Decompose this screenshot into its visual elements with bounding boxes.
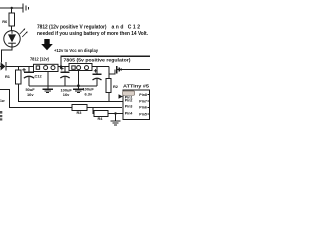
main wire to 7812: [7, 65, 34, 67]
ATtiny chip box: [123, 90, 150, 120]
LED triangle: [8, 34, 16, 42]
capacitor 100uF plates: [61, 71, 70, 73]
resistor R4: [94, 111, 108, 117]
7805 pin3 circle: [85, 66, 89, 70]
wire 7805 out: [92, 65, 109, 67]
diode D1 cathode bar: [5, 62, 7, 70]
wire 7805 gnd down: [77, 71, 79, 89]
regulator 7805 box: [69, 64, 92, 71]
junction dot 7805 gnd: [77, 84, 80, 87]
wire left edge to lower rail: [0, 90, 122, 108]
LED circle: [4, 31, 20, 47]
jog to +5v ground symbol: [109, 70, 115, 75]
wire R4 to chip: [108, 113, 123, 115]
svg-text:ATTiny #5: ATTiny #5: [123, 84, 149, 89]
svg-text:6.3v: 6.3v: [85, 91, 93, 96]
svg-text:Pin7: Pin7: [139, 99, 147, 103]
LED cathode bar: [8, 42, 16, 44]
chip pin stubs right: [148, 94, 150, 96]
svg-text:R3: R3: [77, 110, 83, 115]
plus sign cap3: [94, 69, 98, 73]
resistor R3 (on rail): [72, 105, 87, 111]
LED light arrows: [20, 29, 27, 37]
svg-text:Pin5: Pin5: [139, 112, 147, 116]
+12v rail: [61, 56, 150, 66]
wire down to ground: [115, 114, 117, 122]
edge marks: [0, 111, 2, 114]
svg-text:7812 (12v): 7812 (12v): [30, 57, 50, 62]
svg-text:7805 (5v positive regulator): 7805 (5v positive regulator): [64, 58, 132, 63]
wire down to bleeder resistor: [18, 66, 20, 70]
junction node +12v tap: [60, 65, 63, 68]
svg-text:needed if you using battery of: needed if you using battery of more then…: [37, 31, 149, 37]
svg-text:Pin4: Pin4: [125, 112, 133, 116]
branch down to R4: [93, 108, 94, 114]
plus sign C12: [22, 68, 26, 72]
svg-text:Pin3: Pin3: [125, 104, 133, 108]
7812 pin2 circle: [44, 66, 48, 70]
svg-text:Pin6: Pin6: [139, 106, 147, 110]
svg-text:R2: R2: [113, 84, 119, 89]
diode D1 triangle: [1, 62, 6, 70]
svg-text:R6: R6: [2, 19, 8, 24]
wire 7812 gnd down: [47, 72, 49, 89]
plus sign 100uF: [60, 67, 64, 71]
7812 pin1 square: [36, 66, 39, 69]
wire to right edge: [116, 69, 150, 71]
capacitor 100uF (12v) stem: [64, 66, 66, 72]
ground (sideways, right): [117, 66, 122, 74]
capacitor C12 stem: [28, 66, 30, 72]
ground under 7812: [42, 89, 52, 92]
capacitor plates: [93, 73, 102, 75]
wire from node to R6: [11, 8, 13, 13]
wire R2 to rail: [108, 93, 110, 102]
resistor R2: [106, 79, 111, 93]
capacitor 100uF (5v) stem: [96, 66, 98, 74]
svg-text:Pin2: Pin2: [125, 98, 133, 102]
chip sub-box: [123, 91, 135, 95]
ground bottom-right: [111, 121, 121, 125]
7805 pin1 square: [72, 66, 75, 69]
ground wire under caps: [29, 85, 97, 87]
wire LED bottom loop: [2, 47, 13, 63]
svg-text:1w: 1w: [0, 99, 5, 103]
svg-text:R4: R4: [98, 116, 104, 121]
wire R6 to LED: [11, 26, 13, 31]
bleeder resistor: [16, 70, 22, 84]
resistor R6: [9, 13, 15, 26]
svg-text:+12v to Vcc on display: +12v to Vcc on display: [54, 48, 99, 53]
big down arrow: [41, 39, 53, 50]
svg-text:C12: C12: [35, 73, 43, 78]
svg-text:16v: 16v: [63, 92, 70, 97]
capacitor C12 plates: [24, 71, 34, 73]
wire resistor bottom to bottom rail: [19, 84, 124, 102]
wire top-left horizontal: [0, 7, 23, 9]
7812 pin3 circle: [51, 66, 55, 70]
svg-text:16v: 16v: [27, 92, 34, 97]
svg-text:7812 (12v positive V regulator: 7812 (12v positive V regulator): [37, 24, 107, 30]
wire down to R2: [108, 66, 110, 78]
regulator 7812 box: [34, 64, 59, 71]
junction dot R4 wire: [114, 112, 116, 114]
diode D1 on input wire: [0, 65, 1, 67]
ground (sideways, top-left): [23, 4, 29, 13]
svg-text:Pin8: Pin8: [139, 93, 147, 97]
svg-text:R1: R1: [5, 74, 11, 79]
ground under 7805: [73, 89, 83, 92]
junction node top-left: [11, 7, 13, 9]
wire 7812 out to 7805: [58, 65, 69, 67]
7805 pin2 circle: [77, 66, 81, 70]
chip pin1 arrow: [119, 94, 123, 98]
